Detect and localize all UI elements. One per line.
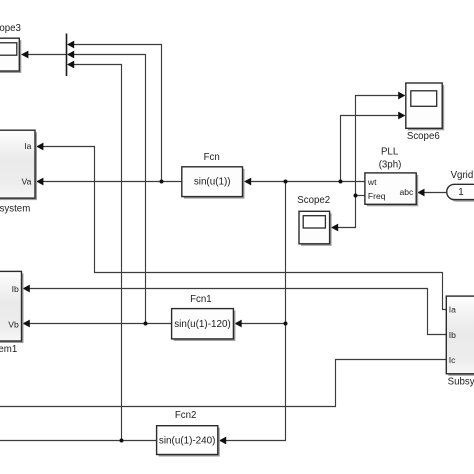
svg-text:Subsystem1: Subsystem1 [0, 344, 17, 355]
node: junction Fcn1 output line [144, 322, 148, 326]
svg-text:Scope2: Scope2 [297, 195, 330, 206]
wire: Fcn output to Va input of Subsystem [36, 178, 182, 186]
svg-text:Scope3: Scope3 [0, 23, 21, 34]
svg-text:wt: wt [367, 177, 377, 187]
function block Fcn2: sin(u(1)-240) [157, 410, 220, 457]
wire: PLL wt output to Fcn input (main row) [244, 178, 365, 186]
node: junction wt line at x=286 [284, 180, 288, 184]
svg-text:abc: abc [399, 187, 414, 197]
svg-text:sin(u(1)-240): sin(u(1)-240) [159, 436, 216, 447]
wire: Subsystem2 Ia output to Subsystem Ia input [36, 143, 446, 310]
node: junction Freq line [354, 194, 358, 198]
svg-text:PLL: PLL [381, 146, 399, 157]
mux Mux3 (bar) [66, 34, 68, 77]
wire: Freq branch down to Scope2 [331, 196, 356, 232]
svg-text:Fcn1: Fcn1 [190, 294, 212, 305]
subsystem Subsystem (Ia, Va) [0, 130, 37, 214]
svg-text:Scope6: Scope6 [407, 131, 440, 142]
scope Scope6 [406, 83, 444, 142]
subsystem Subsystem2 (Ia, Ib, Ic) [446, 296, 474, 388]
wire: branch into Fcn1 input [235, 320, 286, 328]
svg-text:Subsystem: Subsystem [0, 204, 30, 215]
wire: Fcn2 output branch up to mux input 3 [67, 61, 122, 441]
svg-text:sin(u(1)-120): sin(u(1)-120) [174, 319, 231, 330]
svg-text:Ib: Ib [12, 284, 19, 294]
svg-text:(3ph): (3ph) [379, 160, 402, 171]
svg-text:Vb: Vb [8, 319, 19, 329]
wire: wt branch up to Scope6 input 2 [341, 112, 406, 182]
svg-text:Ic: Ic [449, 355, 456, 365]
function block Fcn: sin(u(1)) [182, 152, 245, 199]
svg-text:Freq: Freq [368, 191, 386, 201]
svg-text:Fcn2: Fcn2 [175, 410, 197, 421]
node: junction on Fcn1 input branch [284, 322, 288, 326]
svg-text:sin(u(1)): sin(u(1)) [194, 177, 231, 188]
wire: Fcn1 output branch up to mux input 2 [67, 51, 146, 324]
svg-text:Vgrid: Vgrid [451, 170, 474, 181]
scope Scope3 [0, 23, 21, 73]
svg-text:Subsystem2: Subsystem2 [448, 377, 474, 388]
wire: Fcn2 output to off-canvas left [0, 440, 157, 442]
scope Scope2 [297, 195, 331, 246]
inport Vgrid [447, 170, 474, 202]
svg-text:Ia: Ia [24, 141, 31, 151]
wire: Subsystem2 Ic output to off-canvas left [0, 360, 446, 407]
svg-text:Fcn: Fcn [204, 152, 220, 163]
wire: Subsystem2 Ib output to Subsystem1 Ib input [23, 285, 447, 335]
node: junction on Fcn output line [160, 180, 164, 184]
svg-text:Va: Va [22, 177, 32, 187]
wire: Freq branch up to Scope6 input 1 [356, 92, 406, 196]
svg-text:Ia: Ia [449, 305, 456, 315]
function block Fcn1: sin(u(1)-120) [172, 294, 236, 341]
subsystem Subsystem1 (Ib, Vb) [0, 271, 24, 355]
wire: Freq output stub [356, 195, 366, 197]
wire: Fcn1 output to Vb input of Subsystem1 [23, 320, 172, 328]
svg-text:Ib: Ib [449, 330, 456, 340]
wire: Fcn output branch up to mux input 1 [67, 41, 162, 182]
wire: mux output to Scope3 [21, 51, 66, 59]
node: junction wt line at x=340 [339, 180, 343, 184]
wire: wt branch down to Fcn1 and Fcn2 inputs [219, 182, 286, 445]
svg-text:1: 1 [458, 187, 463, 198]
node: junction Fcn2 output line [120, 439, 124, 443]
PLL (3ph) block [365, 146, 418, 206]
wire: Vgrid to PLL abc input [417, 189, 446, 197]
